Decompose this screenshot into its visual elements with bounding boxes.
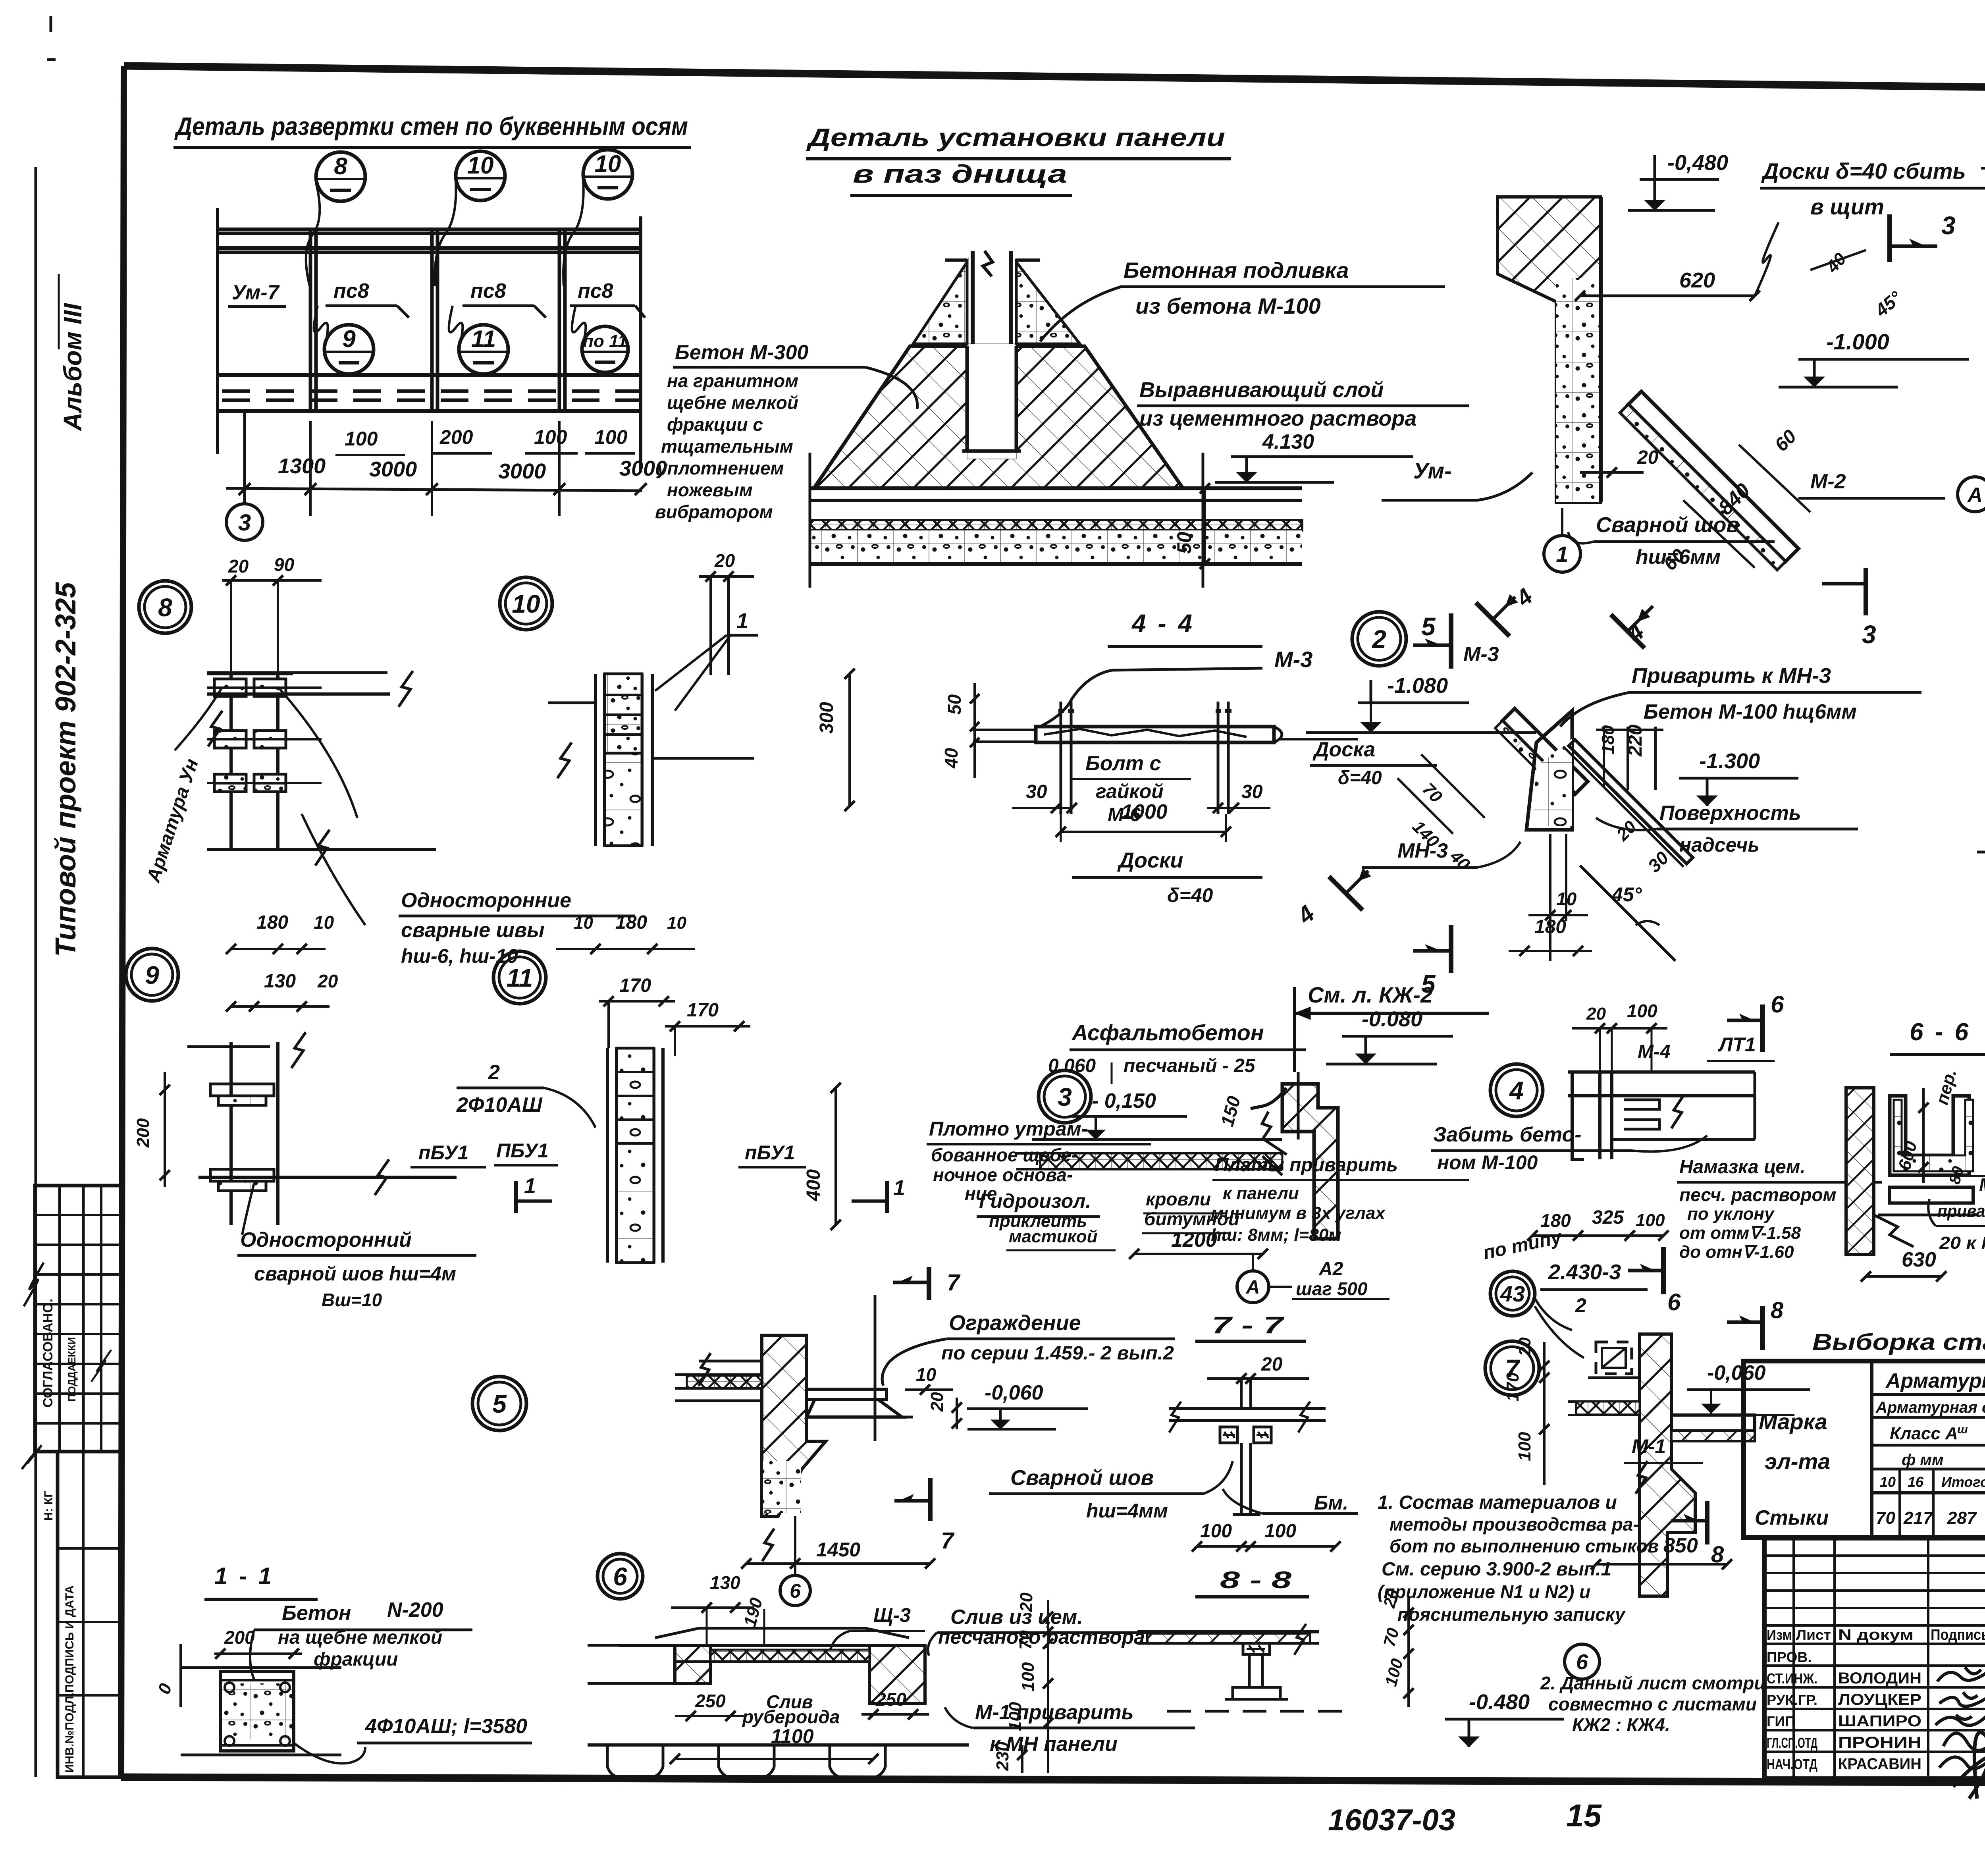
panel in pit - wall panel	[971, 251, 975, 445]
mark circle 11 in panel	[459, 325, 508, 374]
svg-text:Бетонная подливка: Бетонная подливка	[1124, 258, 1349, 283]
svg-text:10: 10	[314, 912, 334, 933]
svg-text:(приложение N1 и N2) и: (приложение N1 и N2) и	[1378, 1581, 1590, 1602]
svg-text:пс8: пс8	[470, 280, 506, 303]
svg-text:8: 8	[334, 153, 347, 179]
detail 2 drawing diag plate & concrete wedge	[1495, 708, 1588, 801]
svg-text:Ум-7: Ум-7	[232, 281, 280, 304]
detail 7 section mark 8 top	[1760, 1306, 1765, 1350]
detail 11 circle	[493, 951, 546, 1004]
svg-text:1: 1	[524, 1174, 536, 1198]
svg-text:Вш=10: Вш=10	[322, 1290, 382, 1310]
svg-text:16: 16	[1908, 1474, 1924, 1490]
svg-text:См. л. КЖ-2: См. л. КЖ-2	[1308, 982, 1433, 1007]
svg-text:Стыки: Стыки	[1755, 1506, 1829, 1529]
title block signatures squiggles	[1937, 1667, 1985, 1681]
detail 5 section mark 7 top	[927, 1267, 931, 1300]
svg-text:20: 20	[228, 556, 249, 576]
svg-text:Альбом III: Альбом III	[58, 303, 87, 432]
svg-text:ножевым: ножевым	[667, 480, 753, 500]
svg-text:2. Данный лист смотри: 2. Данный лист смотри	[1540, 1673, 1765, 1693]
svg-text:ШАПИРО: ШАПИРО	[1838, 1712, 1921, 1730]
svg-text:hш: 8мм; l=80м: hш: 8мм; l=80м	[1211, 1225, 1341, 1245]
svg-text:МН-3: МН-3	[1397, 839, 1448, 862]
left margin approval stamp table	[35, 1186, 122, 1452]
svg-text:рубероида: рубероида	[742, 1706, 840, 1727]
4-4 board drawing	[1036, 727, 1274, 742]
svg-text:ПБУ1: ПБУ1	[496, 1139, 549, 1162]
svg-text:20: 20	[1515, 1337, 1534, 1356]
svg-text:200: 200	[439, 426, 473, 448]
svg-text:пер.: пер.	[1932, 1067, 1960, 1107]
svg-text:Доски δ=40 сбить: Доски δ=40 сбить	[1761, 158, 1966, 183]
svg-text:4: 4	[1509, 1076, 1524, 1105]
svg-text:Односторонний: Односторонний	[240, 1228, 412, 1251]
svg-text:70: 70	[1876, 1508, 1895, 1528]
svg-text:90: 90	[274, 554, 295, 575]
svg-text:Болт с: Болт с	[1085, 752, 1161, 775]
svg-text:5: 5	[492, 1390, 507, 1418]
svg-text:Доски: Доски	[1117, 848, 1183, 872]
detail 9 circle	[126, 949, 178, 1001]
svg-text:4: 4	[1292, 900, 1320, 929]
svg-text:Бетон М-100 hщ6мм: Бетон М-100 hщ6мм	[1644, 700, 1857, 723]
svg-text:8: 8	[158, 593, 172, 622]
mark circle po11 in panel	[582, 326, 628, 372]
drawing frame border	[124, 66, 1985, 94]
svg-text:170: 170	[687, 1000, 719, 1021]
svg-text:Деталь установки панели: Деталь установки панели	[806, 123, 1225, 152]
svg-text:- 0,150: - 0,150	[1092, 1089, 1156, 1112]
svg-text:30: 30	[1026, 781, 1047, 802]
svg-text:9: 9	[145, 961, 159, 989]
svg-text:hш-6, hш-10: hш-6, hш-10	[401, 945, 518, 967]
svg-text:минимум в 3х углах: минимум в 3х углах	[1211, 1203, 1386, 1223]
svg-text:Деталь развертки стен по б: Деталь развертки стен по буквенным осям	[174, 112, 688, 141]
svg-text:7: 7	[947, 1270, 961, 1296]
svg-text:7: 7	[941, 1528, 955, 1554]
svg-text:мастикой: мастикой	[1009, 1227, 1098, 1246]
svg-text:170: 170	[619, 975, 651, 996]
svg-text:δ=40: δ=40	[1167, 884, 1213, 906]
svg-text:325: 325	[1592, 1207, 1624, 1228]
note circle 6	[1565, 1644, 1600, 1679]
svg-text:180: 180	[256, 912, 288, 933]
svg-text:совместно с листами: совместно с листами	[1548, 1694, 1757, 1714]
svg-text:пояснительную записку: пояснительную записку	[1397, 1604, 1626, 1625]
svg-text:РУК.ГР.: РУК.ГР.	[1767, 1692, 1817, 1708]
svg-text:Марка: Марка	[1759, 1409, 1827, 1434]
svg-text:4Ф10АШ; l=3580: 4Ф10АШ; l=3580	[365, 1715, 527, 1738]
svg-text:217: 217	[1903, 1508, 1934, 1528]
svg-text:Подпись: Подпись	[1931, 1627, 1985, 1643]
svg-text:400: 400	[803, 1169, 824, 1201]
detail 4 circle	[1490, 1064, 1543, 1116]
svg-text:ГЛ.СП.ОТД: ГЛ.СП.ОТД	[1767, 1735, 1817, 1751]
svg-text:бованное щебе-: бованное щебе-	[931, 1145, 1077, 1165]
svg-text:пБУ1: пБУ1	[745, 1141, 795, 1164]
svg-text:1100: 1100	[771, 1725, 814, 1747]
svg-text:40: 40	[941, 748, 962, 769]
svg-text:Сварной шов: Сварной шов	[1596, 513, 1739, 537]
svg-text:100: 100	[1515, 1432, 1534, 1461]
svg-text:15: 15	[1566, 1798, 1602, 1833]
svg-text:М-1: М-1	[1632, 1435, 1666, 1458]
svg-text:100: 100	[1264, 1521, 1296, 1542]
svg-text:20: 20	[1637, 447, 1659, 468]
svg-text:М-4: М-4	[1638, 1041, 1671, 1062]
svg-text:шаг 500: шаг 500	[1296, 1278, 1368, 1299]
detail 4 section mark 6 right	[1760, 1005, 1765, 1052]
svg-text:Приварить к МН-3: Приварить к МН-3	[1632, 664, 1831, 688]
svg-text:Класс А: Класс А	[1890, 1424, 1958, 1443]
svg-text:Ограждение: Ограждение	[949, 1311, 1081, 1335]
title block sign table grid	[1764, 1538, 1985, 1779]
svg-text:300: 300	[816, 702, 837, 734]
svg-text:130: 130	[710, 1572, 740, 1593]
mark circle 9 in panel	[324, 325, 374, 374]
detail 6 ribbed slab bottom	[588, 1743, 969, 1747]
sheet outer left edge line	[35, 167, 37, 1777]
svg-text:-1.000: -1.000	[1826, 329, 1889, 354]
svg-text:до отн∇-1.60: до отн∇-1.60	[1679, 1242, 1794, 1262]
svg-text:180: 180	[615, 912, 647, 933]
left margin lower stamp table inv no	[58, 1452, 122, 1777]
2-2 axis circle A	[1958, 477, 1985, 512]
svg-text:6: 6	[1771, 991, 1784, 1018]
svg-text:ВОЛОДИН: ВОЛОДИН	[1838, 1670, 1921, 1687]
svg-text:приварить: приварить	[1937, 1201, 1985, 1221]
svg-text:из цементного раствора: из цементного раствора	[1139, 407, 1416, 430]
svg-text:-0,060: -0,060	[985, 1381, 1043, 1404]
svg-text:СТ.ИНЖ.: СТ.ИНЖ.	[1767, 1670, 1817, 1687]
svg-text:hш=4мм: hш=4мм	[1086, 1500, 1168, 1522]
svg-text:3: 3	[1941, 211, 1956, 240]
svg-text:М-4: М-4	[1979, 1174, 1985, 1195]
svg-text:0: 0	[154, 1681, 176, 1697]
wall elevation - bottom band with dashed lines	[219, 373, 642, 377]
svg-text:гайкой: гайкой	[1096, 780, 1164, 802]
svg-text:620: 620	[1679, 268, 1715, 292]
section mark 5 bottom of detail2	[1449, 925, 1453, 973]
svg-text:Намазка цем.: Намазка цем.	[1679, 1157, 1806, 1178]
panel in pit - ground slab lines	[810, 486, 1302, 490]
detail 3 see KZh-2 arrow line	[1297, 1072, 1300, 1139]
svg-text:методы производства ра-: методы производства ра-	[1389, 1514, 1639, 1535]
svg-text:1: 1	[736, 609, 748, 633]
svg-text:10: 10	[512, 590, 540, 618]
detail 5 section mark 7 bottom	[928, 1478, 933, 1521]
svg-text:М-1 приварить: М-1 приварить	[975, 1701, 1134, 1724]
svg-text:3000: 3000	[498, 459, 546, 483]
svg-text:ночное основа-: ночное основа-	[933, 1165, 1073, 1185]
svg-text:КЖ2 : КЖ4.: КЖ2 : КЖ4.	[1572, 1714, 1670, 1735]
svg-text:Односторонние: Односторонние	[401, 889, 571, 912]
svg-text:уплотнением: уплотнением	[656, 458, 784, 478]
svg-text:20: 20	[714, 550, 735, 571]
svg-text:60: 60	[1771, 426, 1800, 455]
svg-text:100: 100	[534, 426, 567, 448]
svg-text:Гидроизол.: Гидроизол.	[979, 1190, 1091, 1212]
svg-text:по типу: по типу	[1481, 1226, 1564, 1264]
detail 3 corner drawing	[1032, 1138, 1282, 1141]
svg-text:850: 850	[1663, 1534, 1698, 1557]
svg-text:2: 2	[488, 1061, 500, 1084]
svg-text:Ум-: Ум-	[1413, 458, 1452, 483]
svg-text:45°: 45°	[1871, 287, 1906, 321]
svg-text:N докум: N докум	[1838, 1627, 1914, 1643]
detail 1 - dim 620	[1580, 295, 1755, 297]
svg-text:N-200: N-200	[387, 1598, 443, 1621]
svg-text:А: А	[1967, 484, 1983, 507]
svg-text:пБУ1: пБУ1	[418, 1141, 468, 1164]
svg-text:9: 9	[342, 326, 356, 352]
svg-text:Изм: Изм	[1767, 1627, 1792, 1643]
svg-text:-0.480: -0.480	[1469, 1690, 1530, 1714]
svg-text:3000: 3000	[369, 457, 417, 481]
svg-text:0.060: 0.060	[1048, 1055, 1096, 1076]
svg-text:4: 4	[1622, 618, 1649, 647]
svg-text:песчаного раствора: песчаного раствора	[938, 1626, 1145, 1648]
svg-text:1300: 1300	[278, 454, 326, 478]
svg-text:40: 40	[1446, 846, 1474, 874]
svg-text:из бетона М-100: из бетона М-100	[1135, 293, 1321, 318]
svg-text:на щебне мелкой: на щебне мелкой	[278, 1627, 442, 1648]
svg-text:эл-та: эл-та	[1765, 1449, 1830, 1474]
svg-text:1: 1	[893, 1176, 905, 1200]
svg-text:43: 43	[1500, 1281, 1525, 1306]
detail 7 po tipu leader	[1535, 1306, 1584, 1358]
svg-text:190: 190	[740, 1595, 766, 1629]
svg-text:щебне мелкой: щебне мелкой	[667, 392, 798, 413]
svg-text:М-3: М-3	[1463, 643, 1499, 666]
svg-text:1 - 1: 1 - 1	[214, 1563, 274, 1589]
svg-text:Выравнивающий слой: Выравнивающий слой	[1139, 378, 1384, 402]
svg-text:1450: 1450	[816, 1539, 860, 1561]
detail 1 - section mark 3 top	[1887, 214, 1892, 262]
svg-text:по 11: по 11	[583, 332, 627, 351]
svg-text:170: 170	[1503, 1372, 1522, 1402]
svg-text:200: 200	[133, 1118, 153, 1148]
svg-text:70: 70	[1016, 1630, 1035, 1650]
svg-text:кровли: кровли	[1146, 1189, 1211, 1209]
svg-text:10: 10	[1880, 1474, 1896, 1490]
mark circle 10b top	[583, 150, 632, 199]
svg-text:Плотно утрам-: Плотно утрам-	[929, 1118, 1088, 1140]
svg-text:в паз днища: в паз днища	[853, 160, 1067, 188]
svg-text:4.130: 4.130	[1262, 430, 1314, 453]
svg-text:150: 150	[1216, 1094, 1244, 1129]
svg-text:6: 6	[1576, 1650, 1588, 1674]
detail 8 circle	[139, 581, 191, 633]
svg-text:630: 630	[1902, 1248, 1936, 1271]
svg-text:6: 6	[1667, 1289, 1681, 1315]
svg-text:ф мм: ф мм	[1902, 1451, 1944, 1469]
svg-text:ЛОУЦКЕР: ЛОУЦКЕР	[1838, 1691, 1921, 1708]
axis circle 3	[226, 504, 263, 540]
svg-text:вибратором: вибратором	[655, 501, 773, 522]
svg-text:30: 30	[1241, 781, 1263, 802]
detail 1 - section mark 3 bottom	[1864, 568, 1868, 615]
svg-text:5: 5	[1421, 612, 1436, 641]
detail 7 circle	[1485, 1341, 1539, 1395]
svg-text:20 к ММ-3: 20 к ММ-3	[1939, 1233, 1985, 1253]
svg-text:10: 10	[574, 913, 593, 933]
svg-text:6: 6	[613, 1562, 627, 1591]
svg-text:10: 10	[667, 913, 686, 933]
svg-text:-1.080: -1.080	[1387, 674, 1448, 698]
svg-text:А2: А2	[1318, 1259, 1343, 1280]
detail 7 drawing wall with dashed box	[1596, 1342, 1632, 1374]
svg-text:Арматурная сталь ГОСТ 5781-75: Арматурная сталь ГОСТ 5781-75	[1875, 1399, 1985, 1416]
svg-text:ПОДДАЕККИ: ПОДДАЕККИ	[66, 1337, 78, 1402]
svg-text:1: 1	[1556, 542, 1568, 567]
svg-text:См. серию 3.900-2 вып.1: См. серию 3.900-2 вып.1	[1382, 1559, 1611, 1580]
svg-text:10: 10	[916, 1364, 937, 1385]
svg-text:КРАСАВИН: КРАСАВИН	[1838, 1755, 1921, 1773]
svg-text:Лист: Лист	[1796, 1627, 1831, 1643]
svg-text:16037-03: 16037-03	[1328, 1803, 1455, 1837]
svg-text:сварные швы: сварные швы	[401, 919, 545, 942]
svg-text:фракции с: фракции с	[667, 414, 763, 435]
svg-text:пс8: пс8	[333, 280, 369, 303]
svg-text:3: 3	[1862, 620, 1876, 649]
svg-text:10: 10	[595, 150, 621, 177]
svg-text:по уклону: по уклону	[1687, 1204, 1775, 1224]
svg-text:СОГЛАСОВАНО.: СОГЛАСОВАНО.	[40, 1299, 56, 1407]
wall elevation - panel joints	[309, 229, 312, 411]
svg-text:Поверхность: Поверхность	[1659, 802, 1801, 825]
detail 7 section mark 8 bottom	[1705, 1501, 1709, 1544]
svg-text:Типовой проект 902-2-325: Типовой проект 902-2-325	[50, 582, 82, 957]
svg-text:Арматура Ун: Арматура Ун	[143, 756, 203, 885]
svg-text:11: 11	[507, 964, 533, 992]
svg-text:hш=6мм: hш=6мм	[1636, 546, 1721, 569]
detail 9 drawing	[229, 1042, 233, 1225]
svg-text:1. Состав материалов и: 1. Состав материалов и	[1378, 1492, 1617, 1513]
detail 6 drawing parapet flashing	[675, 1645, 711, 1683]
svg-text:3: 3	[238, 510, 251, 536]
wall elevation drawing - top band	[219, 228, 642, 231]
svg-text:1200: 1200	[1171, 1228, 1217, 1251]
wall elevation - left axis line	[216, 208, 219, 454]
svg-text:250: 250	[875, 1689, 906, 1710]
svg-text:по серии 1.459.- 2 вып.2: по серии 1.459.- 2 вып.2	[941, 1343, 1174, 1364]
svg-text:6: 6	[790, 1580, 801, 1602]
detail 3 circle	[1039, 1070, 1091, 1123]
svg-text:Забить бето-: Забить бето-	[1433, 1123, 1582, 1146]
svg-text:10: 10	[467, 152, 494, 179]
svg-text:100: 100	[1006, 1702, 1025, 1731]
svg-text:20: 20	[927, 1392, 947, 1412]
svg-text:песчаный - 25: песчаный - 25	[1124, 1055, 1256, 1076]
svg-text:100: 100	[1381, 1656, 1407, 1688]
svg-text:ЛТ1: ЛТ1	[1718, 1033, 1756, 1056]
svg-text:в щит: в щит	[1810, 194, 1884, 219]
svg-text:ш: ш	[1957, 1423, 1968, 1436]
svg-text:М-2: М-2	[1810, 470, 1846, 493]
svg-text:бот по выполнению стыков: бот по выполнению стыков	[1389, 1536, 1659, 1556]
svg-text:3: 3	[1058, 1083, 1072, 1111]
svg-text:Щ-3: Щ-3	[873, 1604, 911, 1626]
mark circle 10a top	[456, 151, 505, 201]
svg-text:надсечь: надсечь	[1679, 834, 1760, 856]
svg-text:Н: КГ: Н: КГ	[42, 1491, 55, 1521]
panel in pit - concrete mound with hatch	[814, 346, 1183, 488]
svg-text:2: 2	[1372, 625, 1386, 654]
svg-text:тщательным: тщательным	[661, 436, 793, 457]
svg-text:287: 287	[1947, 1508, 1977, 1528]
svg-text:ПРОНИН: ПРОНИН	[1838, 1734, 1921, 1751]
svg-text:на гранитном: на гранитном	[667, 370, 798, 391]
detail 4 section mark 6 bottom	[1661, 1247, 1666, 1294]
svg-text:20: 20	[1586, 1004, 1606, 1024]
svg-text:Доска: Доска	[1312, 738, 1375, 761]
svg-text:250: 250	[695, 1691, 726, 1711]
svg-text:-0.080: -0.080	[1362, 1007, 1422, 1031]
8-8 drawing	[1137, 1630, 1319, 1633]
svg-text:8: 8	[1771, 1298, 1784, 1323]
svg-text:50: 50	[944, 694, 965, 715]
svg-text:песч. раствором: песч. раствором	[1679, 1184, 1837, 1205]
svg-text:Выборка стали на один: Выборка стали на один	[1812, 1329, 1985, 1355]
svg-text:4 - 4: 4 - 4	[1131, 609, 1195, 638]
4-4 bolts	[1060, 702, 1062, 814]
detail 5 drawing parapet w/ roof	[762, 1335, 826, 1516]
wall elevation - right edge	[639, 216, 642, 472]
detail 1 - wall column hatched	[1497, 197, 1601, 502]
mark circle 8 top	[316, 152, 365, 201]
1-1 drawing small pier section	[181, 1666, 341, 1669]
svg-text:Бм.: Бм.	[1314, 1492, 1348, 1514]
svg-text:100: 100	[1018, 1662, 1038, 1691]
svg-text:7 - 7: 7 - 7	[1212, 1312, 1285, 1338]
svg-text:130: 130	[264, 971, 296, 992]
svg-text:-1.300: -1.300	[1699, 749, 1760, 773]
svg-text:2: 2	[1575, 1294, 1586, 1317]
detail 2 circle	[1352, 612, 1406, 666]
detail 6 circle	[597, 1554, 643, 1599]
detail 5 circle	[472, 1377, 526, 1431]
svg-text:100: 100	[345, 428, 378, 450]
svg-text:100: 100	[1636, 1211, 1665, 1230]
svg-text:Арматурные изделия: Арматурные изделия	[1885, 1369, 1985, 1392]
svg-text:ГИП: ГИП	[1767, 1713, 1795, 1729]
svg-text:230: 230	[993, 1741, 1012, 1771]
svg-text:Бетон М-300: Бетон М-300	[675, 341, 808, 364]
svg-text:-0,480: -0,480	[1667, 151, 1728, 175]
svg-text:δ=40: δ=40	[1338, 767, 1382, 789]
svg-text:сварной шов hш=4м: сварной шов hш=4м	[254, 1263, 456, 1285]
svg-text:А: А	[1246, 1277, 1260, 1298]
section mark 4 bottom flag	[1329, 854, 1385, 910]
svg-text:пс8: пс8	[578, 280, 613, 303]
svg-text:20: 20	[1017, 1593, 1036, 1612]
detail 1 - axis circle 1	[1544, 536, 1580, 572]
svg-text:20: 20	[317, 971, 338, 991]
svg-text:70: 70	[1380, 1626, 1402, 1648]
section mark 1 pair	[514, 1181, 518, 1213]
7-7 drawing	[1169, 1407, 1326, 1410]
svg-text:Итого: Итого	[1941, 1474, 1985, 1490]
svg-text:20: 20	[1261, 1354, 1283, 1375]
svg-text:НАЧ.ОТД: НАЧ.ОТД	[1767, 1756, 1817, 1772]
svg-text:Асфальтобетон: Асфальтобетон	[1071, 1020, 1264, 1045]
svg-text:-0,060: -0,060	[1707, 1361, 1766, 1384]
svg-text:100: 100	[594, 426, 628, 448]
svg-text:11: 11	[471, 326, 496, 352]
svg-text:2Ф10АШ: 2Ф10АШ	[456, 1093, 543, 1116]
